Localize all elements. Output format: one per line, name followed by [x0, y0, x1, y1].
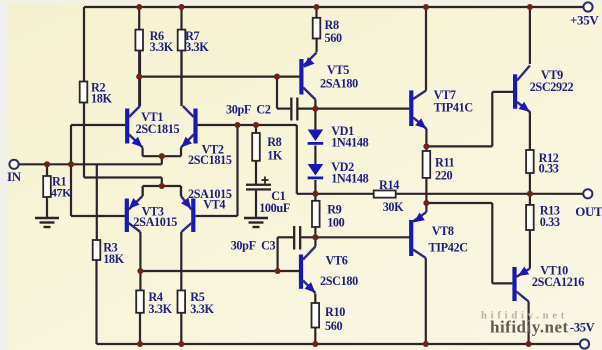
- svg-text:2SC1815: 2SC1815: [136, 122, 180, 136]
- svg-text:2SC1815: 2SC1815: [188, 153, 232, 167]
- svg-text:TIP42C: TIP42C: [429, 241, 468, 255]
- svg-text:1N4148: 1N4148: [331, 172, 368, 186]
- svg-text:OUT: OUT: [575, 204, 602, 219]
- svg-text:R8: R8: [325, 18, 339, 32]
- svg-text:220: 220: [435, 169, 452, 183]
- svg-text:VT8: VT8: [432, 224, 454, 238]
- svg-text:2SCA1216: 2SCA1216: [532, 275, 584, 289]
- svg-text:R14: R14: [379, 178, 399, 192]
- svg-text:+35V: +35V: [570, 13, 599, 28]
- svg-text:560: 560: [325, 31, 342, 45]
- svg-text:3.3K: 3.3K: [148, 302, 172, 316]
- svg-text:1N4148: 1N4148: [331, 136, 368, 150]
- svg-text:3.3K: 3.3K: [185, 40, 209, 54]
- svg-text:VT6: VT6: [326, 254, 348, 268]
- svg-text:2SA1015: 2SA1015: [133, 215, 177, 229]
- svg-text:100uF: 100uF: [259, 201, 290, 215]
- svg-text:1K: 1K: [267, 149, 283, 163]
- svg-text:R8: R8: [267, 135, 281, 149]
- svg-text:3.3K: 3.3K: [190, 302, 214, 316]
- svg-text:0.33: 0.33: [539, 162, 559, 176]
- svg-text:18K: 18K: [91, 92, 112, 106]
- svg-text:hifidiy.net: hifidiy.net: [490, 318, 569, 337]
- svg-text:TIP41C: TIP41C: [434, 101, 473, 115]
- svg-text:30K: 30K: [383, 200, 404, 214]
- svg-text:30pF C2: 30pF C2: [226, 103, 271, 117]
- svg-text:30pF C3: 30pF C3: [231, 239, 276, 253]
- svg-text:3.3K: 3.3K: [150, 40, 174, 54]
- svg-text:-35V: -35V: [570, 321, 595, 335]
- svg-text:R9: R9: [327, 203, 341, 217]
- svg-text:2SA180: 2SA180: [320, 77, 358, 91]
- svg-text:VT4: VT4: [203, 198, 225, 212]
- svg-text:R11: R11: [435, 156, 455, 170]
- svg-text:VT5: VT5: [327, 63, 349, 77]
- svg-text:IN: IN: [7, 169, 22, 184]
- svg-text:47K: 47K: [51, 186, 72, 200]
- svg-text:0.33: 0.33: [540, 215, 560, 229]
- svg-text:2SC2922: 2SC2922: [530, 80, 574, 94]
- svg-text:18K: 18K: [103, 252, 124, 266]
- svg-text:560: 560: [325, 319, 342, 333]
- svg-text:2SC180: 2SC180: [320, 274, 358, 288]
- svg-text:R10: R10: [325, 305, 345, 319]
- svg-text:100: 100: [327, 216, 344, 230]
